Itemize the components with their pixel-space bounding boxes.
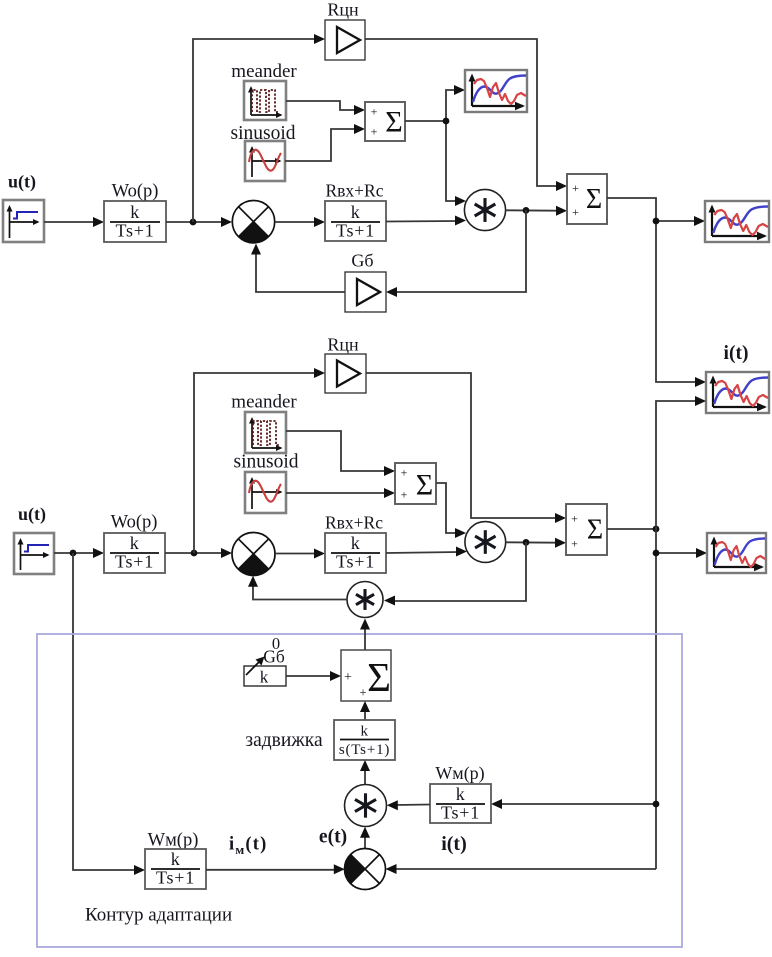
- svg-text:meander: meander: [231, 61, 297, 82]
- wire Rcn1 to big sum input1 (top): [365, 39, 567, 191]
- label Rcn (bottom gain): [327, 335, 359, 355]
- svg-text:k: k: [351, 533, 361, 553]
- svg-text:+: +: [572, 181, 579, 195]
- svg-text:Σ: Σ: [587, 515, 603, 546]
- gain Rcn triangle block (bottom): [325, 354, 366, 393]
- junction Wm right branch node: [653, 801, 660, 808]
- transfer function Wo(p) k/(Ts+1) (top): [104, 201, 166, 242]
- label u(t) (top input): [8, 172, 36, 193]
- svg-text:k: k: [351, 202, 361, 222]
- label i(t) above scope3: [724, 343, 749, 364]
- svg-text:u(t): u(t): [8, 172, 36, 193]
- svg-text:Ts+1: Ts+1: [441, 803, 480, 823]
- svg-text:k: k: [171, 849, 181, 869]
- junction multiplier2 output node: [523, 539, 530, 546]
- svg-text:s(Ts+1): s(Ts+1): [339, 742, 390, 758]
- svg-text:Wм(p): Wм(p): [435, 763, 484, 784]
- adaptation loop border (blue rectangle): [37, 634, 682, 947]
- label Gb (top feedback gain): [351, 251, 373, 271]
- svg-text:k: k: [260, 668, 269, 687]
- svg-text:sinusoid: sinusoid: [233, 452, 298, 473]
- long vertical line with branches (scope3 in2, scope4, Wm right, adaptation sum): [386, 396, 708, 874]
- svg-text:Σ: Σ: [385, 106, 402, 139]
- label Wm(p) (left adaptation model): [148, 831, 199, 851]
- sum junction circle (top): [232, 201, 274, 243]
- wire junction down to feedback multiplier (bottom): [384, 542, 526, 606]
- wire multiplier2 to big sum input2 (bottom): [506, 538, 566, 548]
- meander square-wave source (top): [244, 81, 286, 120]
- svg-text:Wo(p): Wo(p): [111, 513, 158, 533]
- junction sigma1 output node: [443, 118, 450, 125]
- wire Gb block to adaptation Sigma: [286, 671, 341, 681]
- junction Sigma2 output node: [653, 526, 660, 533]
- svg-text:k: k: [130, 202, 140, 222]
- label Rcn (top gain): [327, 0, 359, 20]
- svg-text:+: +: [401, 466, 408, 480]
- wire step1 to Wo1: [44, 217, 104, 227]
- step source block u(t) (top): [3, 200, 44, 242]
- sinusoid sine source (top): [245, 141, 285, 181]
- transfer function Wo(p) k/(Ts+1) (bottom): [104, 533, 165, 573]
- svg-text:Rцн: Rцн: [327, 0, 359, 20]
- big summing block Sigma2 (bottom output): [566, 504, 607, 555]
- wire sigma1 output with branches to scope1 and multiplier1: [405, 85, 466, 206]
- label Kontur adaptacii: [85, 905, 232, 926]
- wire sinusoid2 to sigma2: [286, 488, 395, 498]
- label Gb (adaptation gain): [263, 647, 285, 667]
- svg-text:Wм(p): Wм(p): [148, 831, 199, 851]
- junction node C (194,553): [191, 550, 198, 557]
- wire junction down to Gb gain (top feedback): [386, 210, 526, 297]
- meander square-wave source (bottom): [245, 412, 286, 453]
- scope block 1 (top): [465, 70, 527, 112]
- svg-text:k: k: [130, 533, 140, 553]
- adaptation sum junction circle (left wedge): [345, 849, 386, 890]
- svg-text:Ts+1: Ts+1: [336, 552, 375, 572]
- svg-text:iм(t): iм(t): [229, 835, 268, 858]
- transfer function Rvx+Rc k/(Ts+1) (bottom): [325, 533, 386, 573]
- svg-text:+: +: [572, 205, 579, 219]
- label u(t) (bottom input): [18, 504, 46, 525]
- svg-text:Σ: Σ: [416, 469, 433, 502]
- svg-text:Wo(p): Wo(p): [112, 182, 159, 202]
- junction node A (193,222): [190, 219, 197, 226]
- wire node C up to Rcn gain (bottom): [194, 368, 325, 553]
- transfer function Wm(p) k/(Ts+1) (right): [430, 784, 491, 823]
- svg-text:Ts+1: Ts+1: [156, 868, 195, 888]
- transfer function Rvx+Rc k/(Ts+1) (top): [325, 201, 386, 241]
- wire Sigma-a output up to multiplier3: [360, 619, 370, 651]
- svg-text:+: +: [571, 537, 578, 551]
- wire Sigma2 output to long vertical: [607, 528, 656, 530]
- wire meander2 to sigma2: [286, 431, 395, 476]
- sum junction circle (bottom): [232, 533, 275, 576]
- svg-text:+: +: [371, 125, 378, 139]
- label Rvx+Rc (top): [326, 181, 384, 201]
- wire node B down to adaptation Wm input: [73, 553, 145, 875]
- multiplier circle 2 (bottom main): [465, 522, 506, 563]
- label 0 (Gb initial value): [272, 634, 280, 653]
- scope block 3 (i(t), middle right): [706, 372, 769, 413]
- wire ks block up to Sigma-a bottom input: [360, 701, 370, 720]
- svg-text:Σ: Σ: [367, 654, 391, 700]
- svg-text:Gб: Gб: [263, 647, 285, 667]
- svg-text:Ts+1: Ts+1: [336, 221, 375, 241]
- adaptation summing block Sigma-a: [341, 650, 391, 701]
- svg-text:i(t): i(t): [724, 343, 749, 364]
- wire sum2 to Rvx+Rc (bottom): [275, 549, 325, 559]
- label Rvx+Rc (bottom): [325, 513, 383, 533]
- svg-text:Σ: Σ: [586, 184, 602, 215]
- svg-text:+: +: [344, 670, 352, 685]
- junction scope2 branch node: [653, 218, 660, 225]
- step source block u(t) (bottom): [14, 533, 54, 574]
- wire Sigma1 output to scope2 and scope3: [607, 198, 706, 387]
- svg-text:u(t): u(t): [18, 504, 46, 525]
- svg-text:k: k: [456, 784, 466, 804]
- wire e(t) multiplier up to ks block: [360, 760, 370, 785]
- wire Wo1 to sum junction (top): [166, 217, 232, 227]
- svg-text:задвижка: задвижка: [245, 730, 323, 751]
- wire multiplier3 to sum2 minus input: [248, 576, 347, 600]
- feedback multiplier circle 3 (bottom): [347, 582, 383, 618]
- scope block 4 (bottom right): [707, 533, 766, 573]
- svg-text:meander: meander: [231, 392, 297, 413]
- wire meander1 to sigma1: [286, 101, 365, 115]
- junction scope4 branch node: [653, 550, 660, 557]
- svg-text:k: k: [361, 724, 369, 740]
- label zadvizhka: [245, 730, 323, 751]
- wire Rvx1 to multiplier1 lower input: [386, 216, 466, 226]
- wire Rvx2 to multiplier2 lower input: [386, 547, 467, 557]
- big summing block Sigma1 (top output): [567, 174, 607, 224]
- wire sum1 to Rvx+Rc (top): [275, 217, 325, 227]
- gain Rcn triangle block (top): [325, 20, 365, 60]
- transfer function k/s(Ts+1) zadvizhka block: [334, 720, 395, 760]
- wire step2 to Wo2: [54, 548, 104, 558]
- wire sigma2 output to multiplier2 upper input: [436, 483, 466, 538]
- svg-text:+: +: [401, 488, 408, 502]
- label e(t): [319, 827, 347, 848]
- wire adaptation sum up to e(t) multiplier: [360, 827, 370, 849]
- transfer function Wm(p) k/(Ts+1) (left): [145, 849, 206, 889]
- svg-text:+: +: [571, 512, 578, 526]
- wire multiplier1 to big sum input2 (top): [506, 206, 567, 216]
- label Wm(p) (right adaptation model): [435, 763, 484, 784]
- summing block sigma2 (meander+sinusoid, bottom): [395, 463, 436, 504]
- label meander (bottom): [231, 392, 297, 413]
- svg-text:Rвх+Rc: Rвх+Rc: [325, 513, 383, 533]
- svg-text:Rцн: Rцн: [327, 335, 359, 355]
- summing block sigma1 (meander+sinusoid, top): [365, 102, 405, 141]
- svg-text:i(t): i(t): [441, 833, 467, 855]
- adjustable gain Gb block k with slash arrow: [244, 657, 286, 687]
- wire Wm left to adaptation sum: [206, 864, 345, 874]
- label sinusoid (top): [230, 123, 295, 144]
- svg-text:Контур адаптации: Контур адаптации: [85, 905, 232, 926]
- sinusoid sine source (bottom): [245, 472, 286, 513]
- label meander (top): [231, 61, 297, 82]
- svg-text:Gб: Gб: [351, 251, 373, 271]
- label i_m(t): [229, 835, 268, 858]
- svg-text:Rвх+Rc: Rвх+Rc: [326, 181, 384, 201]
- wire Rcn2 to big sum input1 (bottom): [366, 373, 566, 523]
- gain Gb triangle block (top): [345, 272, 386, 312]
- wire Gb to sum1 minus input (top): [251, 244, 345, 293]
- wire sinusoid1 to sigma1: [285, 124, 365, 161]
- label i(t) (adaptation): [441, 833, 467, 855]
- svg-text:+: +: [359, 686, 366, 700]
- label Wo(p) (top): [112, 182, 159, 202]
- svg-text:Ts+1: Ts+1: [115, 552, 154, 572]
- scope block 2 (top right): [705, 201, 769, 242]
- wire Wm right to e(t) multiplier: [387, 800, 430, 810]
- svg-text:e(t): e(t): [319, 827, 347, 848]
- label sinusoid (bottom): [233, 452, 298, 473]
- multiplier circle e(t) (adaptation): [345, 785, 387, 827]
- label Wo(p) (bottom): [111, 513, 158, 533]
- junction node B (73,553): [70, 550, 77, 557]
- wire Wo2 to sum junction (bottom): [165, 548, 232, 558]
- svg-text:Ts+1: Ts+1: [115, 221, 154, 241]
- multiplier circle 1 (top): [464, 189, 505, 230]
- wire node A up to Rcn gain (top): [193, 34, 325, 222]
- junction multiplier1 output node: [523, 207, 530, 214]
- svg-text:+: +: [371, 105, 378, 119]
